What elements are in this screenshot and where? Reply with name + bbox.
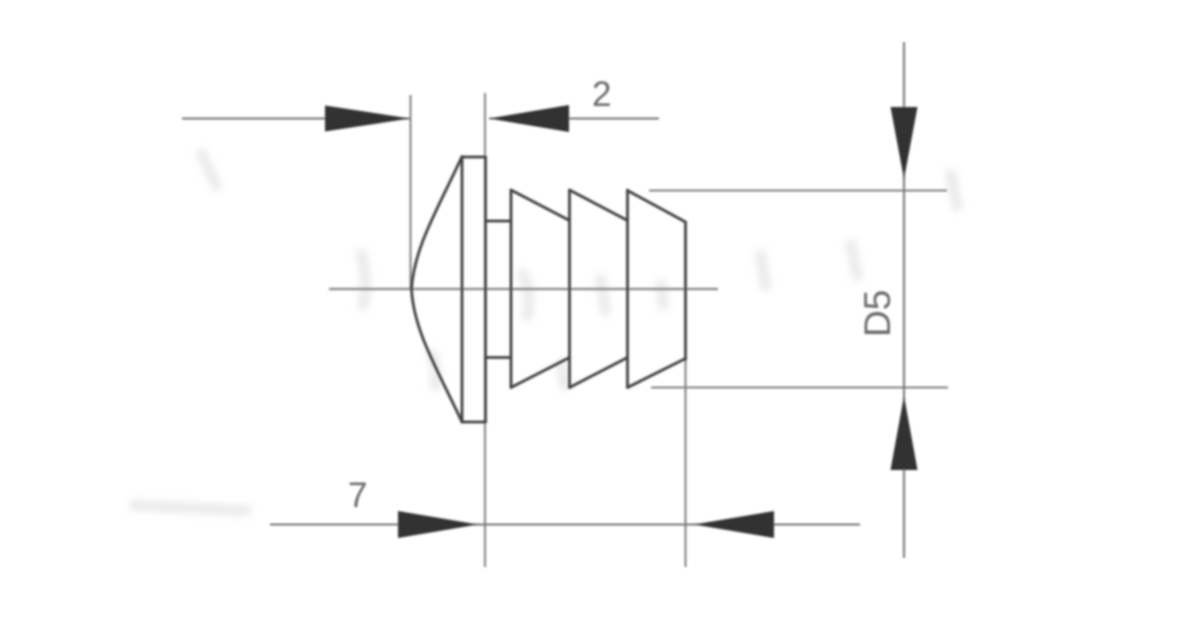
svg-text:2: 2 (592, 75, 611, 114)
svg-text:D5: D5 (857, 290, 898, 337)
svg-text:7: 7 (348, 476, 367, 515)
